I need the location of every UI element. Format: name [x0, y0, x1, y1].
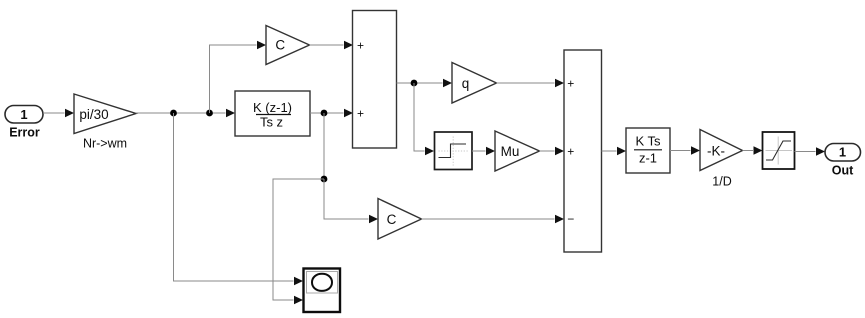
wire gain Nr->wm to derivative block — [136, 109, 235, 117]
gain C2 — [378, 199, 422, 240]
wire node B up to gain C1 — [210, 41, 267, 113]
wire node C down to node D — [323, 113, 325, 179]
junction dot node A — [170, 110, 177, 117]
wire gain Mu to sum2 second input — [540, 147, 565, 155]
wire gain q to sum2 first input — [497, 79, 565, 87]
svg-text:C: C — [275, 38, 285, 53]
wire integrator to gain 1/D — [670, 146, 700, 154]
svg-text:q: q — [462, 76, 470, 91]
svg-text:+: + — [357, 107, 364, 121]
svg-text:+: + — [567, 145, 574, 159]
sign block — [435, 132, 473, 170]
gain C1 — [266, 26, 310, 65]
junction dot node C — [321, 110, 328, 117]
junction dot node D — [321, 176, 328, 183]
svg-text:Error: Error — [9, 126, 40, 140]
svg-text:Ts z: Ts z — [260, 115, 283, 130]
saturation block — [763, 132, 795, 169]
svg-text:1: 1 — [839, 145, 846, 160]
wire gain 1/D to saturation — [743, 146, 763, 154]
sum2 — [564, 50, 602, 252]
svg-text:pi/30: pi/30 — [79, 107, 108, 122]
junction dot node E — [411, 80, 418, 87]
svg-text:K Ts: K Ts — [635, 134, 661, 149]
wire sum2 output to integrator block — [602, 147, 627, 155]
junction dot node B — [206, 110, 213, 117]
wire sign block to gain Mu — [472, 147, 495, 155]
svg-text:+: + — [357, 39, 364, 53]
svg-text:1/D: 1/D — [712, 175, 731, 189]
wire gain C2 to sum2 third input — [422, 215, 565, 223]
wire node D to XY graph second input — [273, 179, 324, 304]
svg-text:z-1: z-1 — [639, 151, 657, 166]
wire node D down to gain C2 — [324, 179, 378, 223]
svg-text:1: 1 — [20, 107, 27, 122]
gain q — [452, 63, 497, 104]
wire node A down to XY graph first input — [174, 113, 304, 285]
wire sum1 output to gain q — [397, 79, 453, 87]
gain Mu — [495, 131, 540, 171]
wire saturation to outport Out — [795, 147, 826, 155]
svg-text:C: C — [387, 212, 397, 227]
wire derivative block to sum1 second input — [310, 109, 353, 117]
inport Error — [5, 106, 43, 124]
XY graph scope — [304, 269, 341, 313]
svg-text:Nr->wm: Nr->wm — [83, 137, 127, 151]
discrete integrator block K Ts/(z-1) — [626, 128, 670, 173]
wire Error to gain Nr->wm — [43, 109, 74, 117]
outport Out — [825, 144, 861, 162]
discrete derivative block K(z-1)/Ts z — [235, 91, 310, 136]
wire node E down to sign block — [414, 83, 434, 155]
svg-text:Out: Out — [832, 164, 854, 178]
svg-text:−: − — [567, 212, 574, 226]
svg-text:+: + — [567, 77, 574, 91]
svg-text:Mu: Mu — [501, 144, 520, 159]
sum1 — [353, 11, 397, 149]
wire gain C1 to sum1 first input — [310, 41, 354, 49]
svg-text:-K-: -K- — [707, 143, 725, 158]
gain 1/D (-K-) — [700, 130, 743, 171]
svg-text:K (z-1): K (z-1) — [253, 100, 292, 115]
gain Nr->wm (pi/30) — [74, 94, 136, 134]
